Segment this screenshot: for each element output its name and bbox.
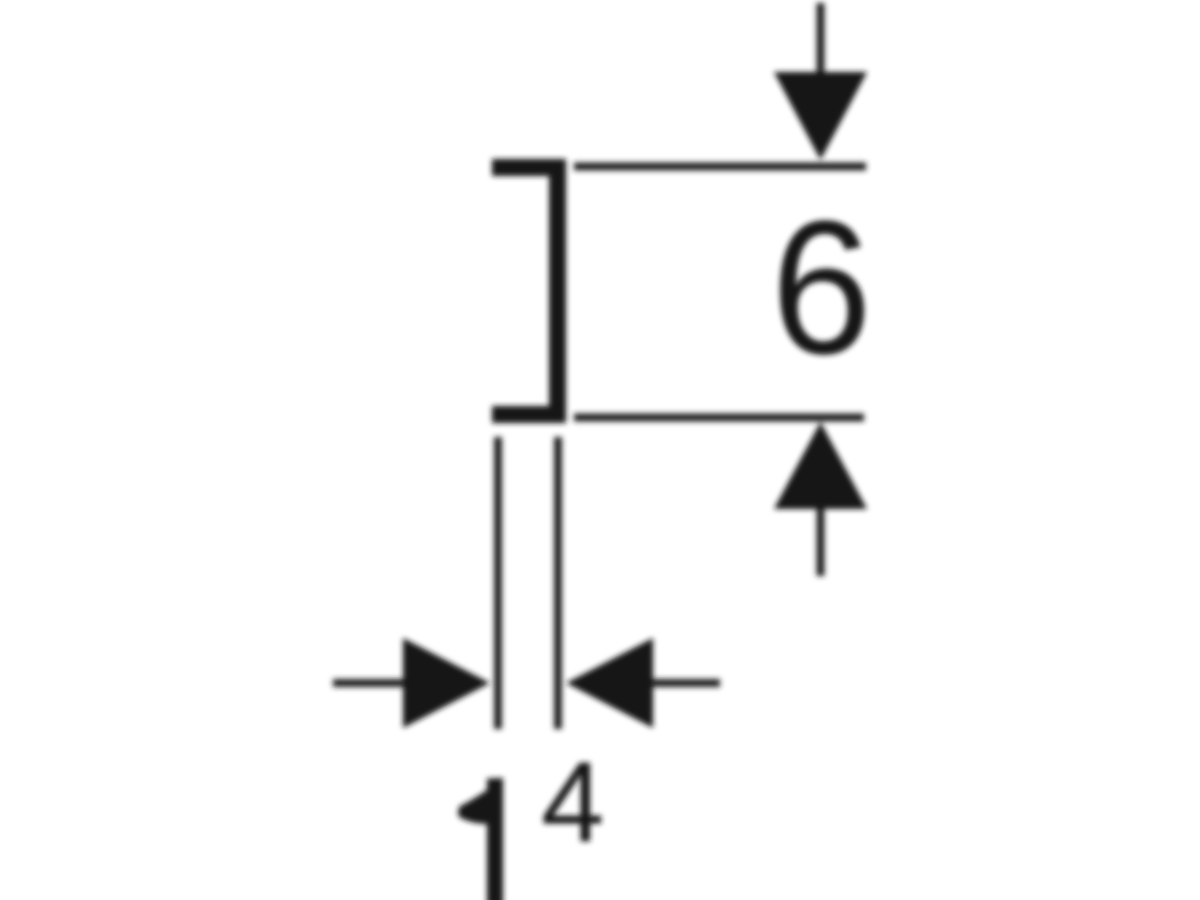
wire: bottom dimension stem: [817, 509, 825, 576]
node E: left-pointing arrowhead: [566, 638, 653, 728]
node C: up arrowhead for dimension 6: [774, 422, 867, 509]
wire: left dimension stem horizontal: [333, 679, 404, 687]
wire: left extension line vertical: [494, 437, 502, 729]
node B: C-profile bracket: [492, 159, 566, 423]
node A: down arrowhead for dimension 6: [774, 72, 867, 160]
svg-text:4: 4: [541, 740, 604, 867]
wire: right extension line vertical: [554, 437, 562, 729]
svg-text:6: 6: [771, 182, 872, 394]
wire: bottom extension line: [574, 414, 864, 422]
wire: top dimension stem: [817, 3, 825, 74]
node D: right-pointing arrowhead: [403, 638, 490, 728]
wire: top extension line: [574, 163, 866, 171]
wire: right dimension stem horizontal: [653, 679, 720, 687]
node L1: label 1: [458, 778, 503, 900]
